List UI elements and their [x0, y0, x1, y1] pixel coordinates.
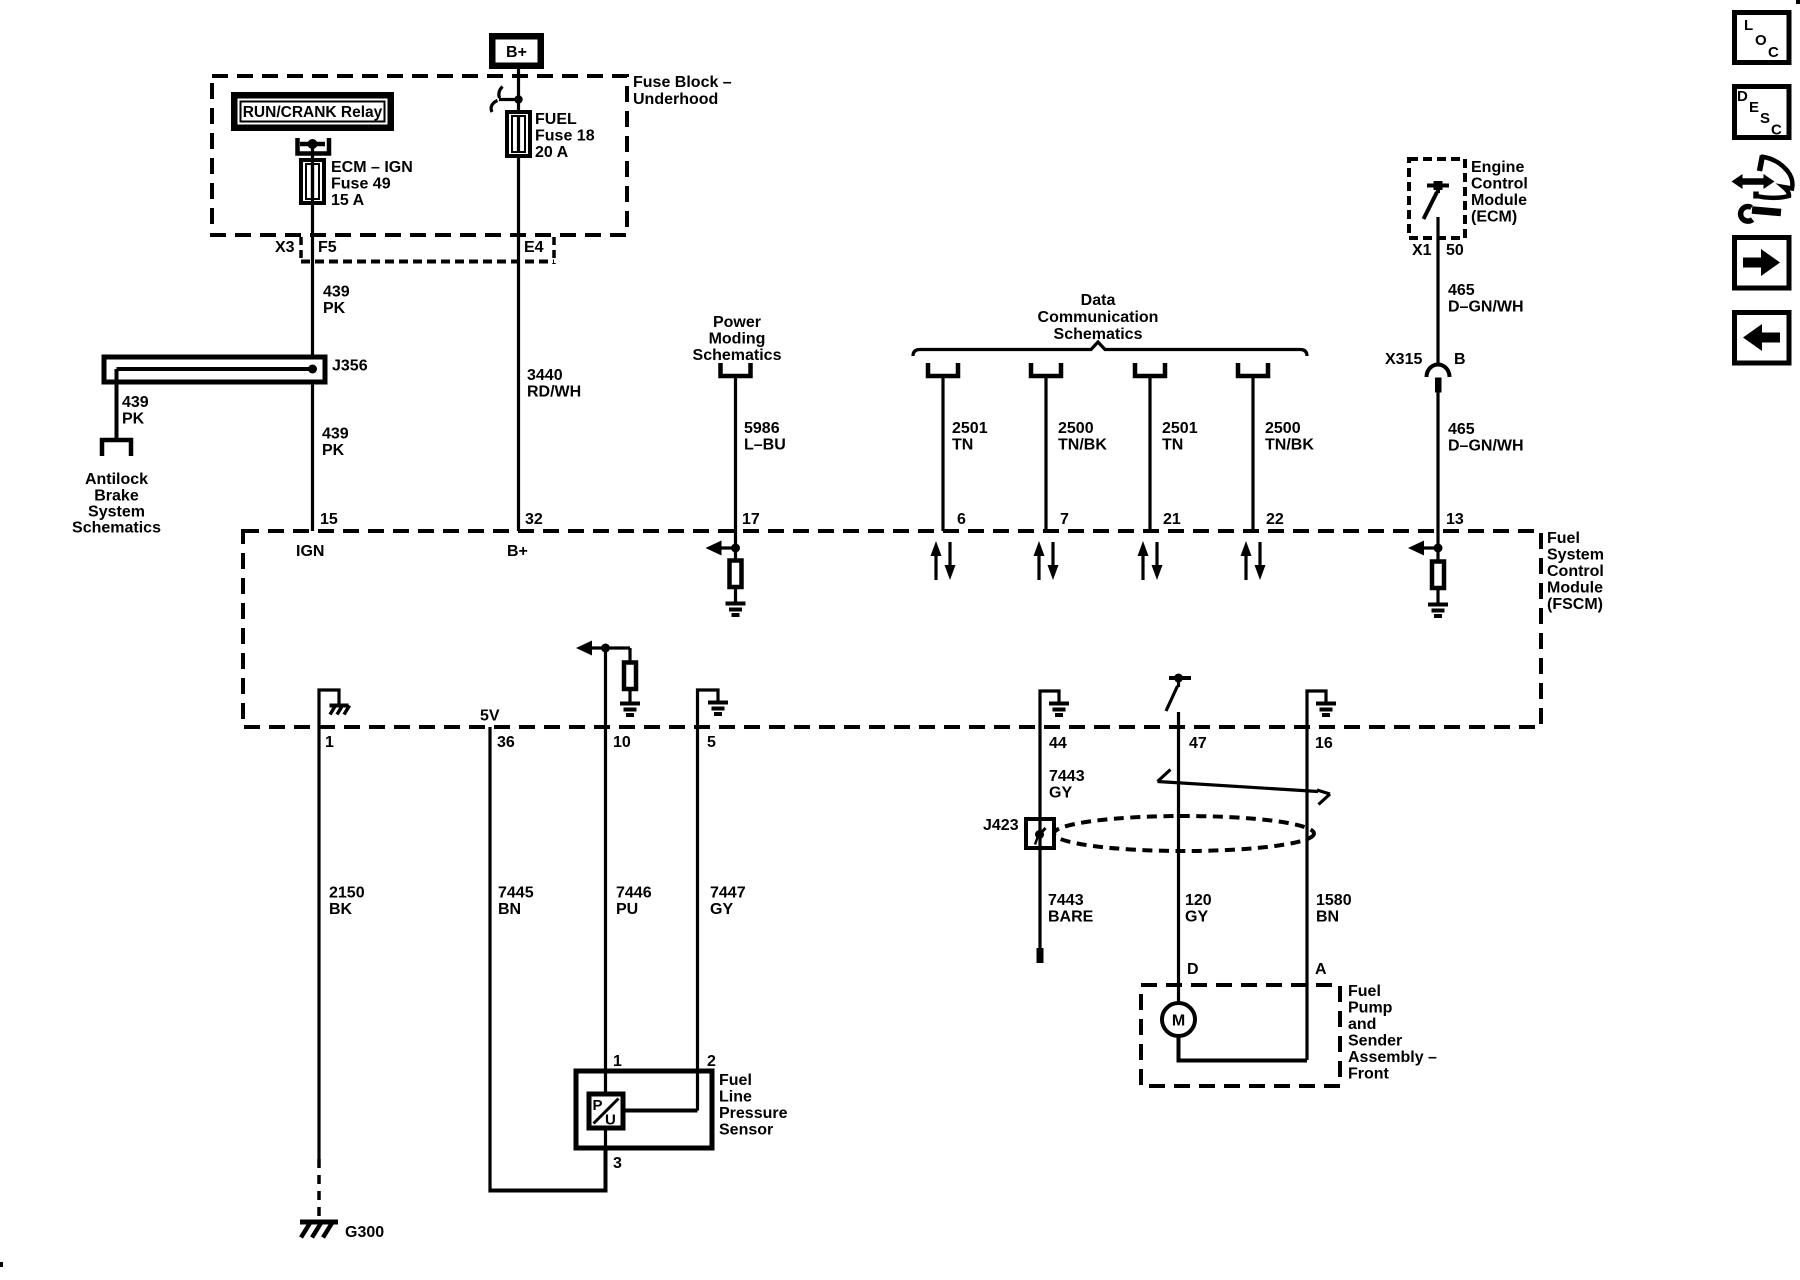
svg-text:7: 7 [1060, 511, 1069, 528]
svg-text:439: 439 [323, 284, 350, 301]
pin label 1 [325, 734, 334, 751]
battery feed hook arrow [491, 87, 523, 113]
svg-text:D: D [1187, 961, 1199, 978]
svg-text:PU: PU [616, 901, 638, 918]
label 7443 GY [1049, 768, 1085, 802]
corner mark bottom left [0, 1262, 3, 1267]
dashed wire to G300 [317, 1159, 321, 1219]
wire 120 GY [1177, 727, 1180, 1003]
svg-text:Pump: Pump [1348, 1000, 1393, 1017]
label J423 [983, 817, 1019, 834]
pin 10 internal reference: arrow junction resistor ground [576, 641, 640, 728]
svg-text:X3: X3 [275, 239, 295, 256]
svg-text:7443: 7443 [1048, 892, 1084, 909]
svg-text:C: C [1771, 122, 1782, 139]
svg-text:PK: PK [323, 300, 346, 317]
wire 7447 GY [696, 727, 699, 1072]
svg-text:P: P [593, 1097, 603, 1114]
label 2501 TN [952, 420, 988, 454]
svg-text:FUEL: FUEL [535, 111, 577, 128]
svg-text:D–GN/WH: D–GN/WH [1448, 438, 1524, 455]
pin 17 internal pull-down: junction arrow resistor ground [706, 531, 746, 615]
svg-text:50: 50 [1446, 242, 1464, 259]
svg-text:J423: J423 [983, 817, 1019, 834]
wire 1580 BN [1305, 727, 1308, 1060]
svg-text:Communication: Communication [1038, 309, 1159, 326]
svg-text:C: C [1768, 44, 1779, 61]
svg-text:TN/BK: TN/BK [1058, 437, 1107, 454]
label 2501 TN second [1162, 420, 1198, 454]
svg-text:Sensor: Sensor [719, 1122, 773, 1139]
Engine Control Module dashed box [1409, 159, 1465, 238]
connector data wire 4 [1238, 363, 1268, 376]
svg-text:TN: TN [1162, 437, 1183, 454]
svg-text:B: B [1454, 351, 1466, 368]
fuel level variable arrow [1158, 770, 1331, 805]
svg-text:7445: 7445 [498, 885, 534, 902]
svg-text:36: 36 [497, 734, 515, 751]
svg-text:17: 17 [742, 511, 760, 528]
svg-text:PK: PK [122, 411, 145, 428]
sensor pin label 3 [613, 1155, 622, 1172]
label X315 [1385, 351, 1422, 368]
label B [1454, 351, 1466, 368]
svg-text:3: 3 [613, 1155, 622, 1172]
svg-text:RD/WH: RD/WH [527, 384, 581, 401]
svg-text:S: S [1760, 110, 1770, 127]
label 7447 GY [710, 885, 746, 919]
pin label 17 [742, 511, 760, 528]
svg-text:B+: B+ [506, 44, 527, 61]
nav icon LOC [1735, 13, 1790, 63]
fuel sender dashed ellipse [1054, 816, 1314, 851]
svg-text:Engine: Engine [1471, 159, 1524, 176]
svg-text:2501: 2501 [1162, 420, 1198, 437]
svg-text:A: A [1315, 961, 1327, 978]
svg-text:(ECM): (ECM) [1471, 209, 1517, 226]
ground pin 5 [708, 703, 728, 715]
label Antilock Brake System Schematics [72, 471, 161, 537]
RUN/CRANK Relay box [231, 92, 394, 131]
pin label 32 [525, 511, 543, 528]
svg-text:Assembly –: Assembly – [1348, 1049, 1437, 1066]
svg-text:Fuel: Fuel [1547, 530, 1580, 547]
svg-text:PK: PK [322, 442, 345, 459]
svg-text:Power: Power [713, 314, 761, 331]
svg-text:D–GN/WH: D–GN/WH [1448, 299, 1524, 316]
svg-text:L: L [1744, 17, 1753, 34]
sensor pin label 1 [613, 1053, 622, 1070]
pin label 21 [1163, 511, 1181, 528]
label B+ pin 32 [507, 543, 528, 560]
svg-text:B+: B+ [507, 543, 528, 560]
connector to antilock brake schematics [102, 440, 131, 456]
pin label 10 [613, 734, 631, 751]
svg-text:F5: F5 [318, 239, 337, 256]
svg-text:U: U [605, 1112, 616, 1129]
svg-text:X315: X315 [1385, 351, 1422, 368]
svg-text:1: 1 [613, 1053, 622, 1070]
ground pin 16 [1316, 704, 1336, 716]
label 7446 PU [616, 885, 652, 919]
svg-text:Module: Module [1471, 192, 1527, 209]
label 120 GY [1185, 892, 1212, 926]
serial data arrows pin 6 [931, 541, 956, 580]
label 7443 BARE [1048, 892, 1094, 926]
wire 439 PK from fuse 49 [311, 203, 314, 531]
svg-text:(FSCM): (FSCM) [1547, 596, 1603, 613]
svg-text:Schematics: Schematics [72, 520, 161, 537]
pump internal return wire [1179, 1036, 1308, 1061]
svg-text:Fuel: Fuel [1348, 983, 1381, 1000]
serial data arrows pin 22 [1241, 541, 1266, 580]
splice J423 [1026, 819, 1054, 848]
svg-text:15: 15 [320, 511, 338, 528]
wire 465 D-GN/WH lower [1436, 392, 1439, 531]
svg-text:32: 32 [525, 511, 543, 528]
pin 1 internal ground hook [319, 690, 339, 727]
pin label 5 [707, 734, 716, 751]
fuse ECM-IGN Fuse 49 [301, 160, 324, 204]
pin 47 internal driver switch [1166, 674, 1191, 728]
ECM internal driver switch [1424, 181, 1450, 219]
svg-text:RUN/CRANK Relay: RUN/CRANK Relay [243, 104, 383, 121]
pin label 13 [1446, 511, 1464, 528]
svg-text:Fuse 49: Fuse 49 [331, 176, 391, 193]
label Fuel Line Pressure Sensor [719, 1072, 788, 1139]
svg-text:7446: 7446 [616, 885, 652, 902]
label Data Communication Schematics [1038, 292, 1159, 343]
svg-text:G300: G300 [345, 1224, 384, 1241]
svg-text:2501: 2501 [952, 420, 988, 437]
Fuel Line Pressure Sensor outer box [576, 1071, 712, 1148]
wire 2501 TN pin 6 [941, 376, 944, 531]
wire 2501 TN pin 21 [1148, 376, 1151, 531]
svg-text:BN: BN [498, 901, 521, 918]
pin 16 internal ground hook [1307, 691, 1326, 727]
svg-text:439: 439 [122, 394, 149, 411]
Fuel Pump and Sender Assembly dashed box [1141, 985, 1340, 1086]
pin label 16 [1315, 735, 1333, 752]
svg-text:Fuel: Fuel [719, 1072, 752, 1089]
svg-text:5: 5 [707, 734, 716, 751]
pin label 22 [1266, 511, 1284, 528]
svg-text:GY: GY [1049, 785, 1072, 802]
pump pin label A [1315, 961, 1327, 978]
svg-text:Pressure: Pressure [719, 1105, 788, 1122]
svg-text:7447: 7447 [710, 885, 746, 902]
svg-text:Underhood: Underhood [633, 91, 718, 108]
serial data arrows pin 21 [1138, 541, 1163, 580]
wire 7446 PU [604, 727, 607, 1072]
svg-text:X1: X1 [1412, 242, 1432, 259]
label FUEL Fuse 18 20 A [535, 111, 595, 161]
svg-text:16: 16 [1315, 735, 1333, 752]
label 2500 TN/BK second [1265, 420, 1314, 454]
svg-text:1580: 1580 [1316, 892, 1352, 909]
svg-text:120: 120 [1185, 892, 1212, 909]
svg-text:BN: BN [1316, 909, 1339, 926]
svg-text:TN/BK: TN/BK [1265, 437, 1314, 454]
label 439 PK left branch [122, 394, 149, 428]
svg-text:20 A: 20 A [535, 144, 569, 161]
wire 7445 BN [488, 727, 491, 1193]
brace over data connectors [913, 342, 1307, 356]
pin 5 internal ground hook [698, 690, 719, 727]
Fuse Block - Underhood dashed box [212, 76, 627, 235]
svg-text:Line: Line [719, 1089, 752, 1106]
label X3 [275, 239, 295, 256]
power feed B+ box [489, 33, 544, 69]
svg-text:System: System [1547, 547, 1604, 564]
svg-text:IGN: IGN [296, 543, 324, 560]
serial data arrows pin 7 [1034, 541, 1059, 580]
svg-text:2150: 2150 [329, 885, 365, 902]
label G300 [345, 1224, 384, 1241]
wire 2500 TN/BK pin 7 [1044, 376, 1047, 531]
ground pin 44 [1049, 704, 1069, 716]
svg-text:E: E [1749, 99, 1759, 116]
wire 2500 TN/BK pin 22 [1251, 376, 1254, 531]
bare wire end stub [1037, 948, 1044, 963]
label 3440 RD/WH [527, 367, 581, 401]
chassis ground pin 1 [330, 706, 350, 715]
svg-text:1: 1 [325, 734, 334, 751]
svg-text:J356: J356 [332, 358, 368, 375]
svg-text:3440: 3440 [527, 367, 563, 384]
pin 13 internal pull-down: junction arrow resistor ground [1408, 531, 1448, 616]
sensor P/U transducer box [589, 1094, 623, 1129]
pin label 36 [497, 734, 515, 751]
wire 2150 BK [317, 727, 320, 1159]
svg-text:Control: Control [1547, 563, 1604, 580]
svg-text:2: 2 [707, 1053, 716, 1070]
svg-text:465: 465 [1448, 421, 1475, 438]
label 5986 L-BU [744, 420, 786, 454]
label IGN [296, 543, 324, 560]
label F5 [318, 239, 337, 256]
svg-text:Data: Data [1081, 292, 1116, 309]
label ECM - IGN Fuse 49 15 A [331, 159, 413, 209]
label 2150 BK [329, 885, 365, 919]
sensor pin 3 return wire [490, 1148, 606, 1191]
wire 7443 [1038, 727, 1041, 948]
svg-text:2500: 2500 [1058, 420, 1094, 437]
svg-text:L–BU: L–BU [744, 437, 786, 454]
nav icon back arrow [1735, 313, 1790, 364]
svg-text:Fuse Block –: Fuse Block – [633, 74, 732, 91]
nav icon DESC [1735, 87, 1790, 139]
svg-text:Moding: Moding [709, 331, 766, 348]
Fuel System Control Module dashed box [243, 531, 1541, 727]
svg-text:E4: E4 [524, 239, 544, 256]
label X1 [1412, 242, 1432, 259]
pin label 44 [1049, 735, 1067, 752]
label Fuse Block - Underhood [633, 74, 732, 108]
label 5V [480, 708, 500, 725]
chassis ground G300 [300, 1222, 338, 1238]
svg-text:GY: GY [1185, 909, 1208, 926]
svg-text:and: and [1348, 1016, 1376, 1033]
wire 3440 RD/WH from fuse 18 [517, 156, 520, 531]
svg-text:439: 439 [322, 426, 349, 443]
pin label 47 [1189, 735, 1207, 752]
svg-text:Control: Control [1471, 176, 1528, 193]
pin label 6 [957, 511, 966, 528]
svg-text:465: 465 [1448, 282, 1475, 299]
svg-text:O: O [1755, 32, 1767, 49]
wire 5986 L-BU [734, 376, 737, 531]
svg-text:13: 13 [1446, 511, 1464, 528]
svg-text:BARE: BARE [1048, 909, 1094, 926]
svg-text:BK: BK [329, 901, 353, 918]
svg-text:5986: 5986 [744, 420, 780, 437]
pin 44 internal ground hook [1040, 691, 1059, 727]
svg-text:D: D [1737, 88, 1748, 105]
svg-text:44: 44 [1049, 735, 1067, 752]
sensor internal wiring [606, 1072, 698, 1148]
svg-text:ECM – IGN: ECM – IGN [331, 159, 413, 176]
connector from power moding schematics [721, 363, 751, 376]
svg-text:7443: 7443 [1049, 768, 1085, 785]
svg-text:10: 10 [613, 734, 631, 751]
svg-text:M: M [1172, 1013, 1185, 1030]
label 50 [1446, 242, 1464, 259]
connector row X3 dotted outline [301, 237, 554, 264]
svg-text:Module: Module [1547, 580, 1603, 597]
svg-text:Brake: Brake [94, 488, 139, 505]
connector data wire 3 [1135, 363, 1165, 376]
label 439 PK upper [323, 284, 350, 318]
label Power Moding Schematics [693, 314, 782, 364]
svg-text:System: System [88, 504, 145, 521]
connector data wire 2 [1031, 363, 1061, 376]
svg-text:22: 22 [1266, 511, 1284, 528]
pin label 15 [320, 511, 338, 528]
wire 465 D-GN/WH upper [1436, 217, 1439, 364]
svg-text:2500: 2500 [1265, 420, 1301, 437]
nav icon shortcut scribble with arrows and wrench [1732, 156, 1793, 222]
wire B+ feed into fuse block [517, 69, 520, 112]
svg-text:TN: TN [952, 437, 973, 454]
pin label 7 [1060, 511, 1069, 528]
label Fuel System Control Module (FSCM) [1547, 530, 1604, 613]
svg-text:Antilock: Antilock [85, 471, 148, 488]
label 465 D-GN/WH lower [1448, 421, 1524, 455]
relay output terminal connector [298, 138, 330, 161]
svg-text:Front: Front [1348, 1066, 1390, 1083]
svg-text:GY: GY [710, 901, 733, 918]
connector data wire 1 [928, 363, 958, 376]
svg-text:47: 47 [1189, 735, 1207, 752]
label 439 PK lower [322, 426, 349, 460]
svg-text:5V: 5V [480, 708, 500, 725]
sensor pin label 2 [707, 1053, 716, 1070]
nav icon next arrow [1735, 238, 1790, 289]
svg-text:Schematics: Schematics [693, 347, 782, 364]
label Engine Control Module (ECM) [1471, 159, 1528, 226]
label Fuel Pump and Sender Assembly Front [1348, 983, 1437, 1083]
label 465 D-GN/WH upper [1448, 282, 1524, 316]
svg-text:Sender: Sender [1348, 1033, 1402, 1050]
corner mark top right [1796, 0, 1800, 4]
fuse FUEL Fuse 18 [507, 112, 530, 156]
svg-text:6: 6 [957, 511, 966, 528]
label 1580 BN [1316, 892, 1352, 926]
inline connector X315 [1427, 365, 1450, 393]
label 2500 TN/BK [1058, 420, 1107, 454]
label E4 [524, 239, 544, 256]
pump pin label D [1187, 961, 1199, 978]
splice J356 bus bar [104, 357, 325, 440]
svg-text:21: 21 [1163, 511, 1181, 528]
label 7445 BN [498, 885, 534, 919]
svg-text:15 A: 15 A [331, 192, 365, 209]
svg-text:Fuse 18: Fuse 18 [535, 128, 595, 145]
label J356 [332, 358, 368, 375]
fuel pump motor M [1162, 1003, 1195, 1036]
